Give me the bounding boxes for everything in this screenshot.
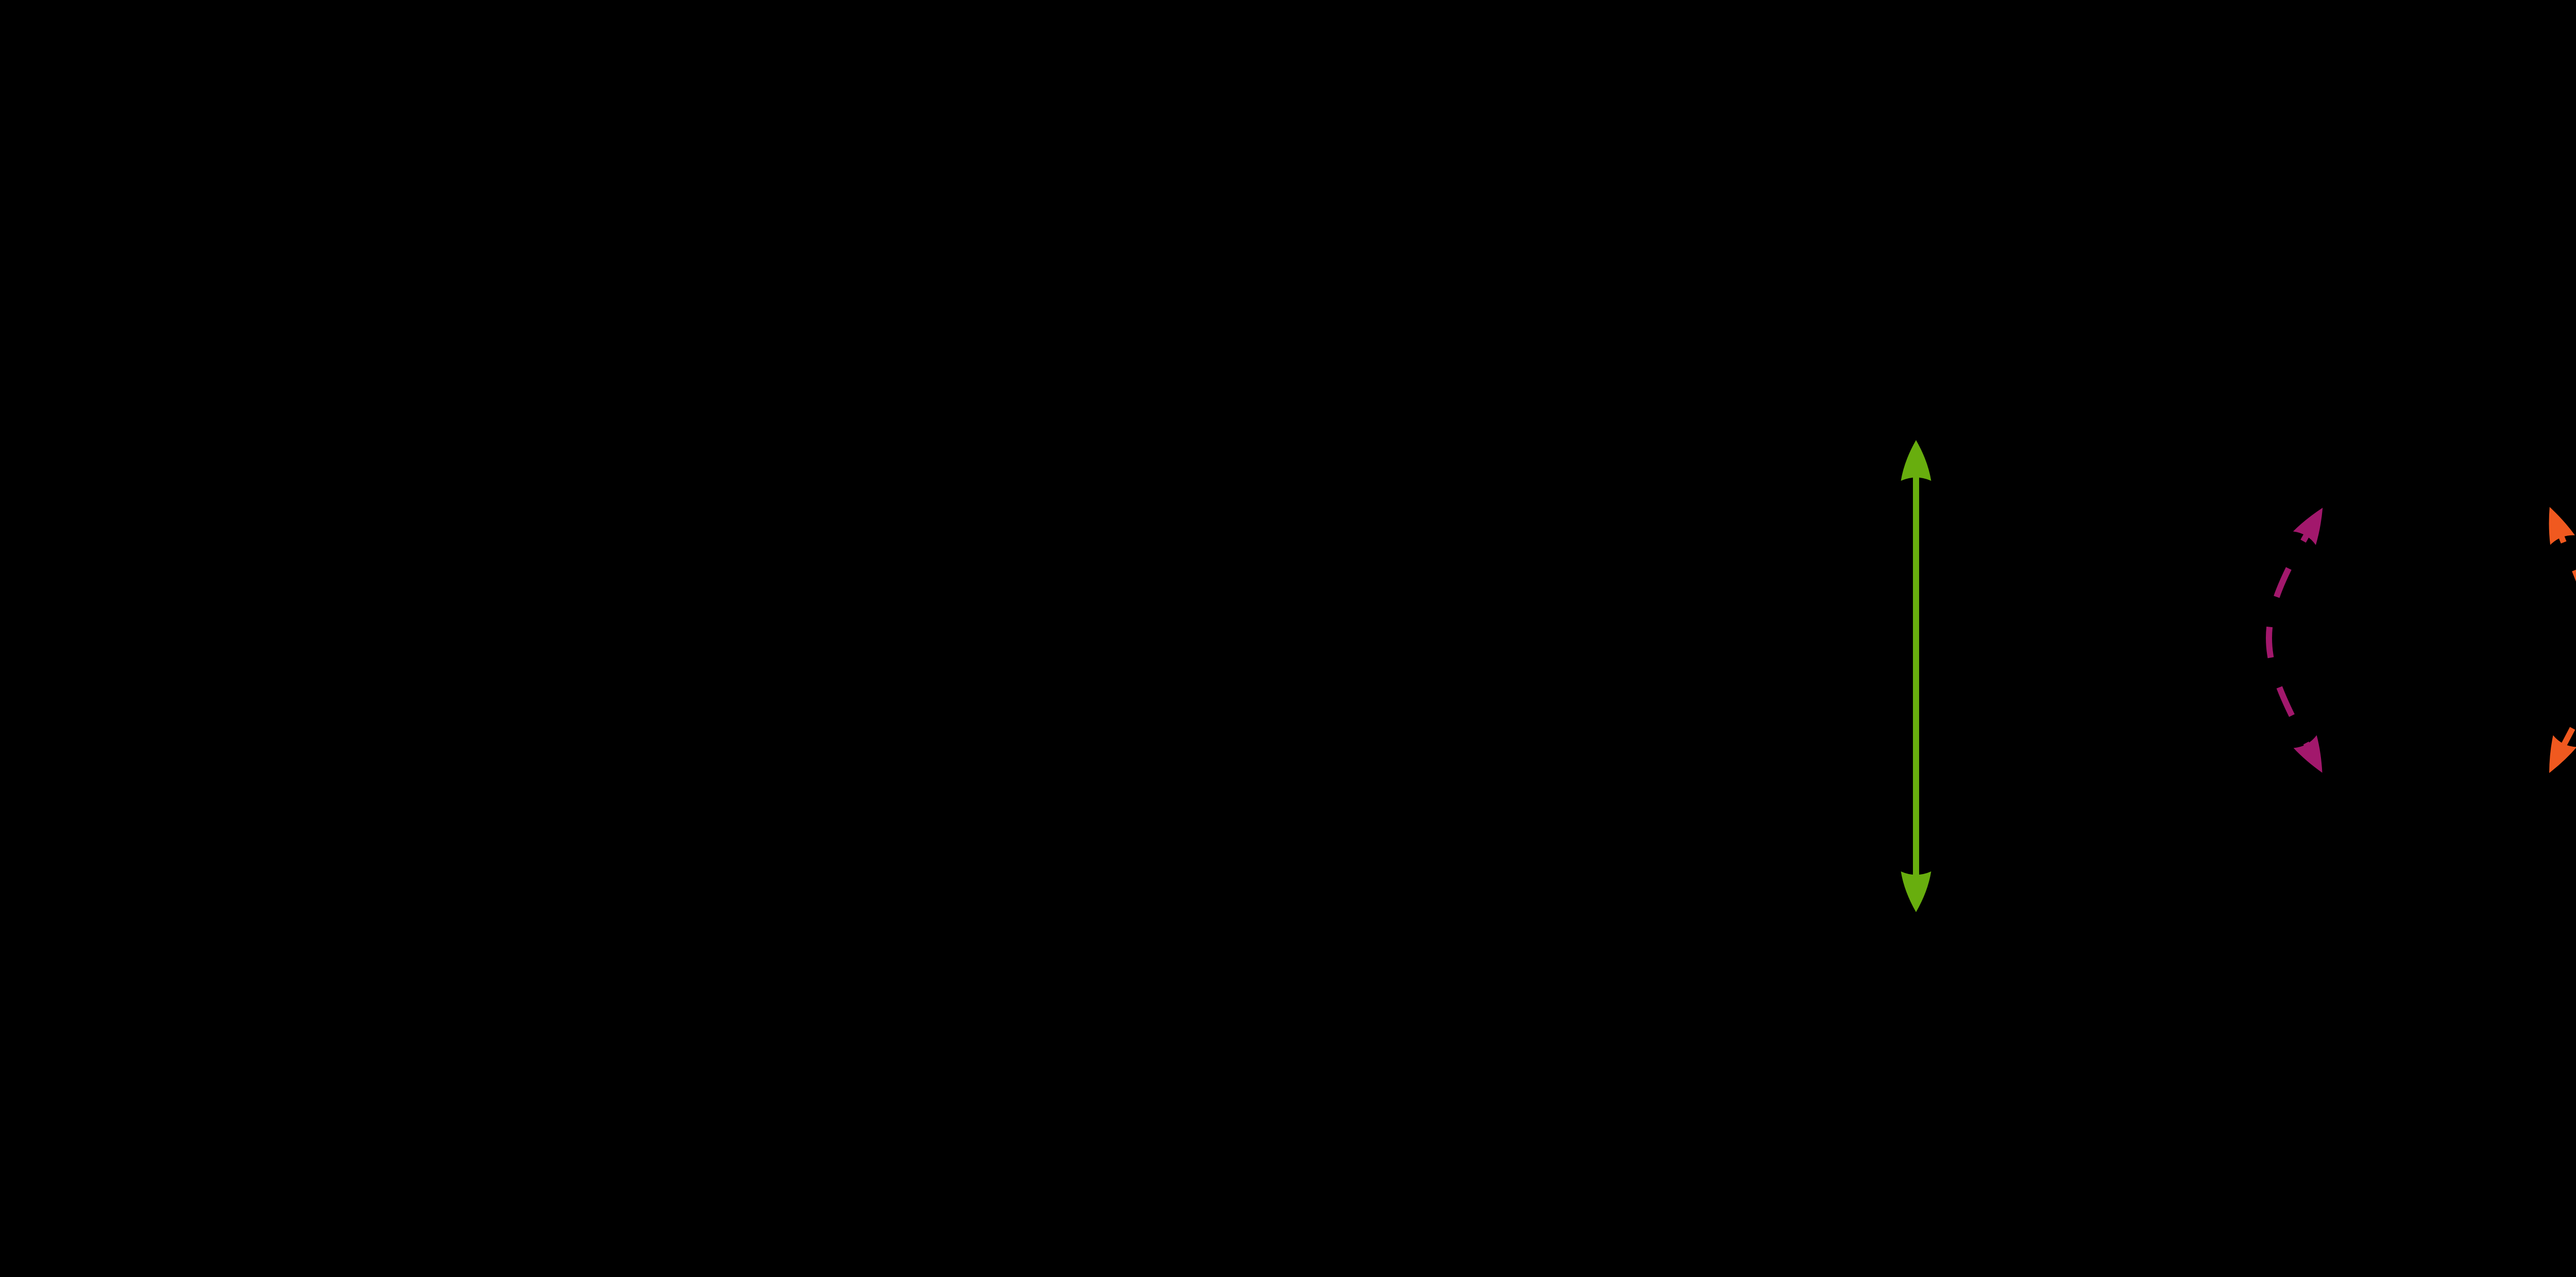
orange arrow 2 top head xyxy=(2537,502,2575,545)
orange arrow 2 dashed stroke xyxy=(2562,536,2576,1129)
small magenta arc bottom head xyxy=(2294,735,2334,779)
green solid vertical double-headed annotation arrow (center) xyxy=(1901,440,1931,912)
orange arrow 1 bottom head xyxy=(2537,735,2576,779)
orange arrow 1 dashed stroke xyxy=(2564,304,2576,745)
green arrow bottom head xyxy=(1901,871,1931,912)
green arrow top head xyxy=(1901,440,1931,481)
small magenta dashed curved double-headed arrow xyxy=(2269,501,2334,779)
orange dashed double-headed arrow 1 (upper-right to lower-left) xyxy=(2537,270,2576,779)
small magenta arc dashed stroke xyxy=(2269,535,2307,745)
small magenta arc top head xyxy=(2293,501,2334,545)
orange dashed double-headed arrow 2 (upper-left to lower-right) xyxy=(2537,502,2576,1164)
green arrow shaft xyxy=(1913,473,1919,879)
